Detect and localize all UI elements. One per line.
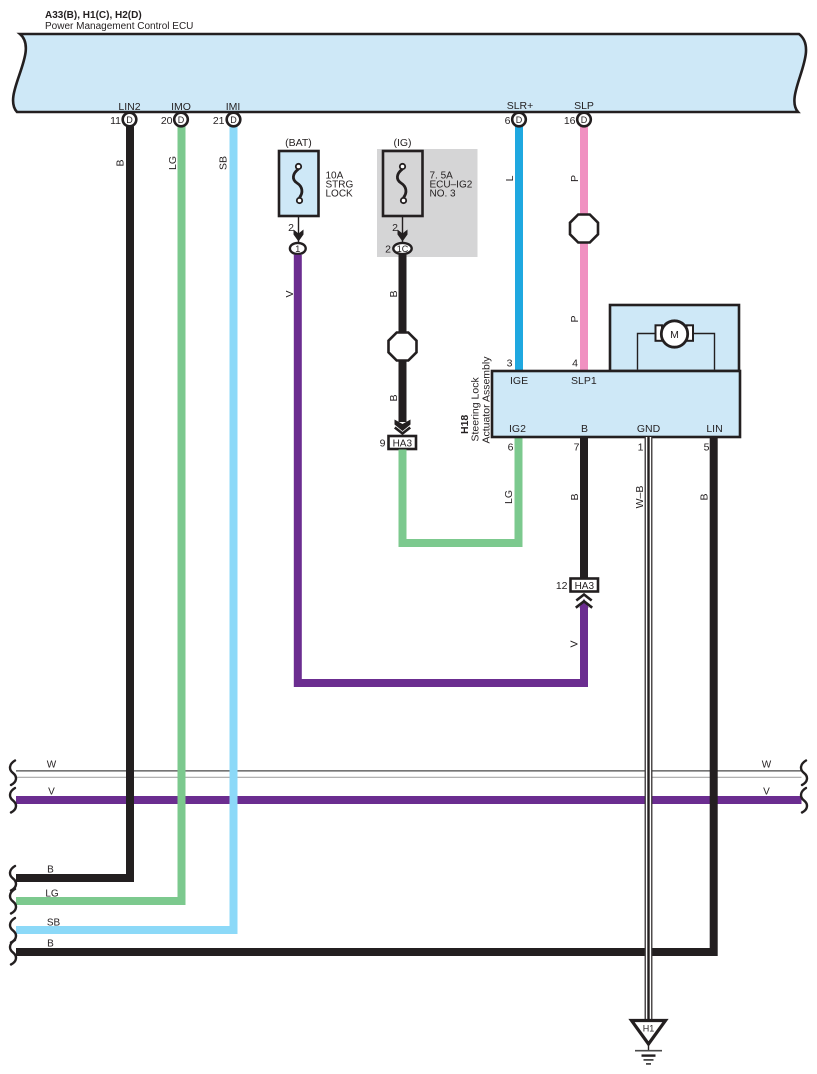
svg-text:IGE: IGE	[510, 375, 528, 387]
chevron into connector HA3 9	[395, 428, 410, 434]
svg-text:(BAT): (BAT)	[285, 137, 312, 149]
svg-text:2: 2	[288, 222, 294, 234]
connector pin 6 (D)	[505, 113, 526, 127]
wire W-B from H18 pin 1 GND to ground	[645, 437, 652, 1020]
svg-text:H1: H1	[643, 1024, 655, 1034]
svg-text:W: W	[762, 760, 772, 771]
svg-text:W: W	[47, 760, 57, 771]
connector pin 11 (D)	[110, 113, 136, 127]
svg-text:1: 1	[295, 244, 300, 254]
svg-text:V: V	[763, 787, 770, 798]
wire fuse BAT lead	[298, 216, 300, 242]
svg-text:SLP: SLP	[574, 100, 594, 112]
svg-text:NO. 3: NO. 3	[430, 188, 457, 199]
arrow into connector 1	[294, 230, 304, 242]
connector HA3 pin 9	[380, 436, 416, 450]
wire V arrowhead into HA3	[579, 599, 588, 609]
svg-text:V: V	[284, 290, 296, 297]
svg-text:L: L	[504, 175, 516, 181]
svg-text:B: B	[581, 423, 588, 435]
connector pin 16 (D)	[564, 113, 591, 127]
svg-text:20: 20	[161, 115, 173, 127]
svg-text:D: D	[230, 115, 237, 125]
svg-text:LG: LG	[167, 156, 179, 170]
connector pin 21 (D)	[213, 113, 240, 127]
fuse F1 10A STRG LOCK box	[279, 151, 319, 216]
wire W horizontal (white)	[16, 771, 802, 777]
wire P from pin 16 SLP to H18 pin 4	[580, 127, 588, 372]
fuse F2 7.5A ECU-IG2 NO.3 box	[383, 151, 423, 216]
break symbol V right	[801, 788, 807, 813]
svg-text:V: V	[48, 787, 55, 798]
connector node 1C	[393, 243, 411, 254]
wire LG from pin 20 IMO down and left to break	[16, 127, 182, 902]
break symbol V left	[10, 788, 16, 813]
svg-text:(IG): (IG)	[393, 137, 411, 149]
svg-text:11: 11	[110, 115, 121, 127]
svg-text:LOCK: LOCK	[326, 188, 354, 199]
svg-text:LG: LG	[45, 889, 59, 900]
break symbol W left	[10, 761, 16, 786]
svg-text:9: 9	[380, 438, 386, 450]
wire V from connector 1 down right and up to HA3 12	[298, 255, 584, 683]
connector node 1	[290, 243, 306, 254]
svg-text:SLR+: SLR+	[507, 100, 534, 112]
svg-text:SB: SB	[47, 918, 61, 929]
svg-text:6: 6	[505, 115, 511, 127]
Power Management Control ECU band	[13, 34, 806, 112]
wire LG from HA3 9 to H18 pin 6 IG2	[403, 437, 519, 543]
chevrons into connector HA3 12	[576, 595, 592, 608]
svg-text:2: 2	[392, 222, 398, 234]
motor M1	[661, 321, 687, 347]
svg-text:B: B	[388, 394, 400, 401]
svg-text:IMI: IMI	[226, 101, 241, 113]
svg-text:D: D	[178, 115, 185, 125]
svg-text:Power Management Control ECU: Power Management Control ECU	[45, 21, 193, 32]
svg-text:B: B	[115, 159, 127, 166]
wire L from pin 6 SLR+ to H18 pin 3	[515, 127, 523, 372]
break symbol SB left	[10, 918, 16, 943]
svg-text:D: D	[581, 115, 588, 125]
ground H1	[632, 1021, 666, 1064]
svg-text:SLP1: SLP1	[571, 375, 597, 387]
wire B from H18 pin 5 LIN down and left to break	[16, 437, 714, 952]
svg-text:Actuator Assembly: Actuator Assembly	[481, 356, 493, 444]
svg-text:LIN: LIN	[706, 423, 722, 435]
connector HA3 pin 12	[556, 579, 598, 593]
component label H18 Steering Lock Actuator Assembly	[459, 356, 493, 444]
svg-text:4: 4	[572, 358, 578, 370]
wire B from H18 pin 7 to HA3 12	[580, 437, 588, 579]
svg-text:D: D	[126, 115, 133, 125]
svg-text:LIN2: LIN2	[118, 101, 140, 113]
connector pin 20 (D)	[161, 113, 188, 127]
break symbol B left lower	[10, 940, 16, 965]
svg-text:V: V	[569, 640, 581, 647]
svg-text:7: 7	[574, 442, 580, 454]
svg-text:IG2: IG2	[509, 423, 526, 435]
arrow into connector 1C	[398, 230, 408, 242]
svg-text:GND: GND	[637, 423, 661, 435]
H18 motor housing box	[610, 305, 739, 371]
wire V horizontal	[16, 796, 802, 804]
svg-text:P: P	[569, 315, 581, 322]
svg-text:HA3: HA3	[393, 439, 413, 450]
svg-text:HA3: HA3	[575, 581, 595, 592]
svg-text:D: D	[516, 115, 523, 125]
H18 Steering Lock Actuator Assembly box	[492, 371, 740, 437]
svg-text:B: B	[47, 865, 54, 876]
break symbol W right	[801, 761, 807, 786]
svg-text:1: 1	[638, 442, 644, 454]
svg-text:B: B	[47, 939, 54, 950]
svg-text:P: P	[569, 175, 581, 182]
wire B from connector 1C down to HA3 9	[399, 255, 407, 422]
svg-text:B: B	[388, 290, 400, 297]
svg-text:16: 16	[564, 115, 576, 127]
svg-text:1C: 1C	[397, 244, 409, 254]
svg-text:LG: LG	[503, 490, 515, 504]
svg-text:12: 12	[556, 580, 568, 592]
wire B from pin 11 LIN2 down and left to break	[16, 127, 130, 879]
svg-text:W–B: W–B	[634, 486, 646, 509]
arrowhead into connector HA3 9	[395, 420, 411, 432]
svg-text:SB: SB	[218, 156, 230, 170]
wire fuse IG lead	[402, 216, 404, 242]
splice octagon on wire B	[389, 333, 417, 361]
break symbol LG left	[10, 889, 16, 914]
motor M brush tabs	[656, 325, 663, 341]
wire SB from pin 21 IMI down and left to break	[16, 127, 234, 931]
break symbol B left upper	[10, 866, 16, 891]
motor M leads	[638, 334, 715, 370]
fuse block gray panel (IG)	[377, 149, 478, 257]
svg-text:3: 3	[507, 358, 513, 370]
svg-text:B: B	[699, 493, 711, 500]
splice octagon on wire P	[570, 215, 598, 243]
svg-text:6: 6	[508, 442, 514, 454]
svg-text:M: M	[670, 329, 679, 341]
svg-text:B: B	[569, 493, 581, 500]
svg-text:2: 2	[385, 244, 391, 256]
svg-text:5: 5	[704, 442, 710, 454]
svg-text:A33(B), H1(C), H2(D): A33(B), H1(C), H2(D)	[45, 10, 142, 21]
svg-text:21: 21	[213, 115, 225, 127]
svg-text:IMO: IMO	[171, 101, 191, 113]
